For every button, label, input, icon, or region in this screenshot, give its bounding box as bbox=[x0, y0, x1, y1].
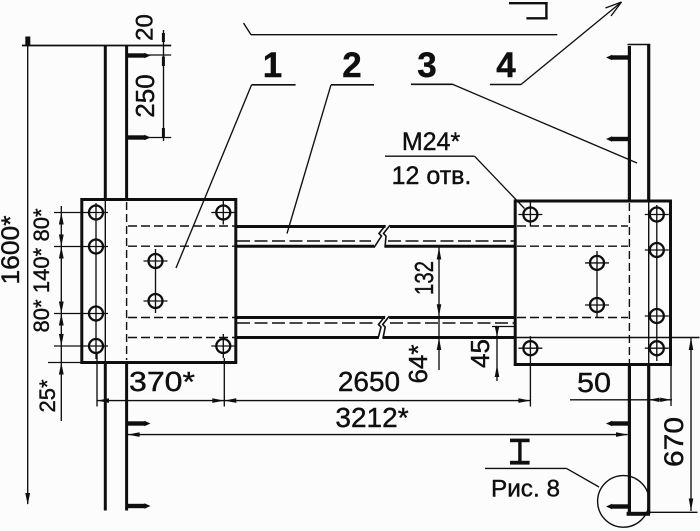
svg-text:80*: 80* bbox=[29, 299, 54, 332]
label Ris. 8 shelf line bbox=[485, 467, 567, 469]
extension line plate bottom bbox=[48, 362, 82, 364]
right middle bolts axis line bbox=[596, 251, 598, 317]
left column bracket 3 (y=423.5) bbox=[128, 421, 151, 426]
extension line from bolt L1 column down bbox=[96, 352, 98, 407]
bolt R7 (middle upper) bbox=[585, 256, 609, 270]
left bolt spacing dim line (80/140/80/25) bbox=[59, 206, 64, 421]
right plate hidden beam edge (bottom beam top) bbox=[517, 317, 628, 319]
bolt R2 bbox=[645, 243, 669, 257]
left column flange line B (x=126.6, hidden dashed behind plate) bbox=[125, 46, 128, 511]
left plate hidden beam edge (bottom beam bottom) bbox=[128, 337, 235, 339]
extension lines for bolt rows bbox=[54, 212, 84, 214]
detail circle bbox=[598, 476, 650, 528]
left plate hidden beam edge (bottom beam top) bbox=[128, 317, 235, 319]
bolt R4 bbox=[645, 341, 669, 355]
bolt L5 (top right of left plate) bbox=[211, 201, 235, 225]
bolt R1 bbox=[645, 208, 669, 222]
label underline M24 bbox=[385, 155, 475, 157]
callout number 1 bbox=[176, 46, 296, 268]
extension line from bolt R6 down bbox=[529, 360, 531, 406]
right column bottom end cap bbox=[627, 512, 650, 516]
left plate bolt axis line bbox=[95, 203, 97, 359]
left column bracket 2 (y=137.5) bbox=[128, 135, 171, 140]
svg-text:250: 250 bbox=[130, 74, 160, 117]
extension line from bolt L6 down bbox=[223, 358, 225, 407]
svg-text:25*: 25* bbox=[35, 379, 60, 412]
left column flange line A (x=105) bbox=[104, 46, 107, 511]
left plate hidden beam edge (top beam bottom) bbox=[128, 245, 235, 247]
dim 1600 vertical line bbox=[25, 37, 30, 506]
dim line 370/2650 (y=400.6) bbox=[97, 398, 530, 403]
svg-text:12 отв.: 12 отв. bbox=[392, 162, 472, 190]
right column bracket 3 (y=423.5) bbox=[606, 421, 629, 426]
svg-text:2650: 2650 bbox=[338, 366, 400, 397]
I-beam section symbol bbox=[510, 439, 530, 465]
svg-text:1600*: 1600* bbox=[0, 215, 25, 284]
svg-text:64*: 64* bbox=[403, 344, 433, 383]
callout number 4 bbox=[490, 2, 622, 85]
svg-text:80*: 80* bbox=[29, 208, 54, 241]
bolt R3 bbox=[645, 309, 669, 323]
dim 670 vertical line (x=691) bbox=[689, 338, 694, 512]
dim line 50 (y=399.8) bbox=[570, 398, 672, 402]
extension line column bottom for dim 670 bbox=[650, 511, 698, 513]
left plate bbox=[82, 200, 236, 363]
channel profile symbol bbox=[509, 2, 548, 19]
callout number 2 bbox=[287, 46, 374, 234]
extension line right plate edge down bbox=[670, 366, 672, 406]
right column bracket 2 (y=139) bbox=[606, 136, 629, 141]
svg-text:3: 3 bbox=[417, 46, 436, 85]
right plate hidden beam edge (top beam bottom) bbox=[517, 245, 628, 247]
left column bracket 1 (y=55.5) bbox=[128, 53, 171, 58]
svg-text:45: 45 bbox=[465, 339, 495, 368]
right plate bbox=[515, 201, 670, 365]
bolt R8 (middle lower) bbox=[585, 298, 609, 312]
bottom beam top edge bbox=[236, 316, 385, 319]
svg-text:Рис. 8: Рис. 8 bbox=[491, 476, 560, 503]
right plate bolt axis line bbox=[656, 205, 658, 361]
bottom beam break mark bbox=[378, 316, 389, 338]
top beam break mark bbox=[374, 225, 390, 247]
top beam hidden line bbox=[237, 240, 371, 242]
bolt R6 (bottom left of right plate) bbox=[518, 336, 542, 360]
svg-text:1: 1 bbox=[263, 46, 282, 85]
right column top edge bbox=[628, 44, 651, 46]
svg-text:370*: 370* bbox=[129, 366, 195, 397]
callout number 3 bbox=[411, 46, 637, 163]
bolt L3 bbox=[84, 307, 108, 321]
dim 20 and 250 vertical line (x=163.5) bbox=[162, 30, 165, 141]
svg-text:M24*: M24* bbox=[402, 128, 461, 156]
svg-text:132: 132 bbox=[409, 261, 439, 295]
right column flange line C (x=629.4) bbox=[628, 46, 631, 514]
right column bracket 4 (y=506.5) bbox=[606, 504, 629, 509]
top beam bottom edge bbox=[236, 245, 374, 248]
top beam top edge bbox=[236, 225, 386, 228]
svg-text:20: 20 bbox=[132, 14, 159, 41]
left column bracket 4 (y=506) bbox=[128, 503, 151, 508]
leader Ris. 8 to detail circle bbox=[567, 468, 600, 487]
svg-text:3212*: 3212* bbox=[335, 402, 408, 433]
dim line 3212 (y=434.6) bbox=[128, 432, 628, 437]
bolt L6 (bottom right of left plate) bbox=[211, 334, 235, 358]
middle bolts axis line bbox=[155, 249, 157, 313]
bolt L8 (middle lower) bbox=[144, 294, 168, 308]
bottom beam hidden line bbox=[237, 322, 377, 324]
svg-text:50: 50 bbox=[577, 367, 611, 398]
svg-text:2: 2 bbox=[342, 46, 361, 85]
svg-text:4: 4 bbox=[496, 46, 516, 85]
left column top edge + extension line for dim 1600/20 bbox=[22, 45, 171, 47]
bottom beam bottom edge bbox=[236, 336, 378, 339]
top leader shelf line bbox=[244, 23, 558, 35]
right plate hidden beam edge (top beam top) bbox=[517, 225, 628, 227]
bolt L1 bbox=[84, 206, 108, 220]
dim 132 and 64 shared vertical line (x=439) bbox=[437, 247, 442, 370]
right column bracket 1 (y=57.5) bbox=[606, 55, 629, 60]
svg-text:140*: 140* bbox=[29, 247, 54, 293]
left plate hidden beam edge (top beam top) bbox=[128, 225, 235, 227]
bottom beam bottom edge extension line to 670 dim bbox=[515, 337, 699, 339]
right column flange line D (x=648.7) bbox=[647, 45, 650, 515]
bolt L7 (middle upper) bbox=[144, 254, 168, 268]
bolt R5 (top left of right plate) bbox=[518, 203, 542, 227]
svg-text:670: 670 bbox=[659, 417, 689, 467]
dim 45 vertical line (x=494.5) bbox=[492, 326, 515, 381]
leader M24 to bolt R5 bbox=[475, 156, 525, 208]
bolt L2 bbox=[84, 240, 108, 254]
right plate hidden column flange (dashed vertical) bbox=[628, 203, 630, 363]
bolt L4 bbox=[84, 339, 108, 353]
